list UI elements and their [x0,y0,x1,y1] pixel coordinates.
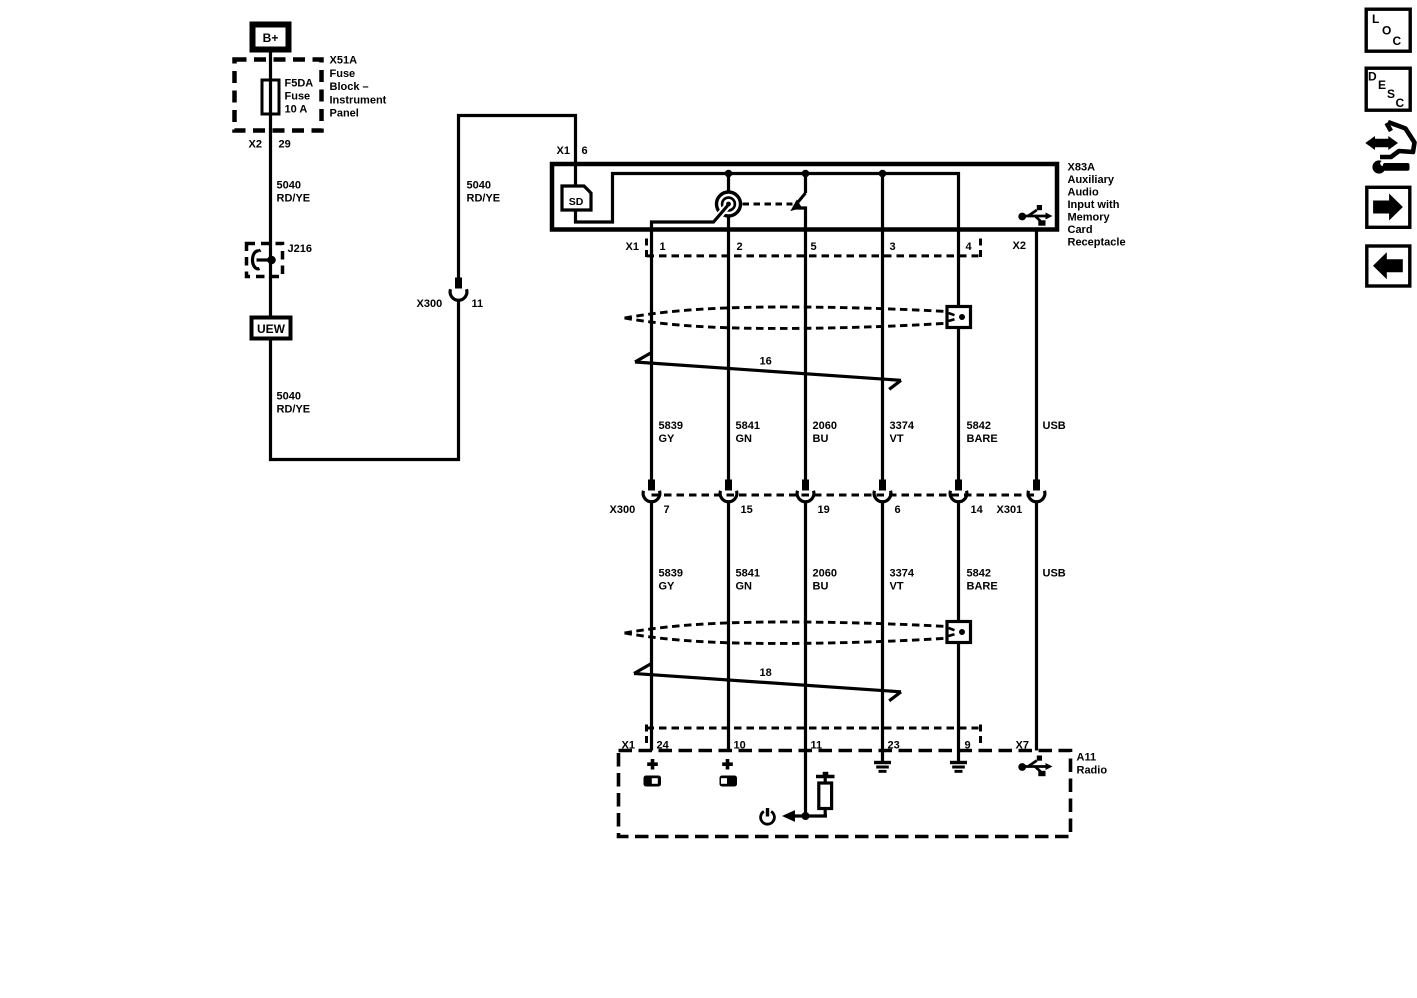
wire bus to pin 3 [881,174,884,232]
shield drain box upper on 5842 [947,307,971,328]
svg-text:6: 6 [895,504,901,516]
wire from X300 11 up to X1 6 of aux unit [459,116,576,278]
svg-text:C: C [1396,96,1405,110]
svg-text:19: 19 [818,504,830,516]
wire X2 from aux unit [1035,232,1038,480]
splice J216 symbol [252,250,275,269]
wire 3374 VT X300-6 to radio 23 [881,502,884,762]
svg-text:USB: USB [1043,568,1066,580]
hotspot icon DESC [1366,68,1410,110]
resistor in radio [795,772,835,816]
svg-text:29: 29 [279,139,291,151]
arrowhead to power symbol [782,810,795,822]
dashed link jack to switch [743,203,793,206]
wire 5842 BARE X300-14 to radio 9 [957,502,960,762]
in-line connector X300 pin 15 [720,480,737,502]
splice J216 dashed box [247,244,283,277]
in-line connector X300 pin 14 [950,480,967,502]
ground symbol radio pin 23 [874,761,891,773]
wire B+ to fuse to J216 to UEW down and right to X300 [271,53,459,460]
svg-text:SD: SD [569,196,584,208]
twisted-pair arrow 16 [635,352,901,389]
in-line connector X301 USB [1028,480,1045,502]
audio jack symbol outer ring [717,192,741,216]
in-line connector X300 pin 6 [874,480,891,502]
svg-text:7: 7 [664,504,670,516]
connector row X1 dashed line under aux unit [647,254,979,257]
svg-text:1: 1 [660,241,666,253]
svg-text:6: 6 [582,145,588,157]
in-line connector X300 pin 19 [797,480,814,502]
svg-text:4: 4 [966,241,973,253]
svg-text:14: 14 [971,504,984,516]
svg-text:X1: X1 [557,145,570,157]
svg-text:15: 15 [741,504,753,516]
svg-text:C: C [1393,34,1402,48]
connector row X300/X301 dashed line [652,494,1037,497]
hotspot icon forward arrow [1367,187,1410,227]
wire bus to jack sleeve [727,174,730,192]
wire 5841 GN X300-15 to radio 10 [727,502,730,751]
audio jack tip contact wire from pin 1 [652,202,731,232]
fuse block X51A dashed box [235,60,322,131]
node junction dot at pin 2 branch [725,170,733,178]
svg-text:X2: X2 [1013,240,1026,252]
UEW box [252,318,291,339]
svg-text:B+: B+ [263,31,279,45]
svg-text:L: L [1372,12,1379,26]
twisted-pair arrow 18 [634,664,901,701]
svg-text:5: 5 [811,241,817,253]
svg-text:X301: X301 [997,504,1023,516]
wire 5839 GY pin1 to X300-7 [650,232,653,480]
svg-text:X300: X300 [610,504,636,516]
junction dot wire 11 to power feed [802,812,810,820]
power symbol [761,808,775,824]
switch S1 in aux unit [790,174,805,232]
svg-text:J216: J216 [288,243,312,255]
radio connector row left tick [645,725,648,745]
wire 2060 BU X300-19 to radio 11 [804,502,807,819]
wire X1 6 into SD card [574,162,577,186]
svg-text:X2: X2 [249,139,262,151]
radio connector row X1 dashed line [647,727,979,730]
audio jack inner ring [722,198,735,211]
wire 3374 VT pin3 to X300-6 [881,232,884,480]
svg-text:D: D [1368,70,1377,84]
svg-text:USB: USB [1043,420,1066,432]
svg-text:3: 3 [890,241,896,253]
connector row X1 left tick [645,239,648,260]
hotspot icon back arrow [1367,246,1410,286]
node junction dot at pin 5 branch [802,170,810,178]
hotspot icon LOC [1366,9,1410,51]
svg-text:X1: X1 [626,241,639,253]
right audio channel plus sign [722,759,733,770]
internal bus wire from SD to pin 4 [576,174,959,232]
svg-text:16: 16 [760,356,772,368]
svg-text:11: 11 [472,298,484,310]
in-line connector X300 pin 11 [450,278,467,301]
svg-text:UEW: UEW [257,322,286,336]
wire 2060 BU pin5 to X300-19 [804,232,807,480]
wire 5842 BARE pin4 to X300-14 [957,232,960,480]
wire USB X301 to radio X7 [1035,502,1038,751]
svg-text:E: E [1378,78,1386,92]
hotspot icon harness routing [1365,122,1414,174]
left audio channel icon [644,776,662,787]
radio A11 dashed box [619,751,1071,837]
shield drain box lower on 5842 [947,622,971,643]
svg-text:18: 18 [760,667,772,679]
USB receptacle icon inside radio [1018,756,1052,777]
left audio channel plus sign [647,759,658,770]
B+ power symbol box [253,25,289,50]
ground symbol radio pin 9 [950,761,967,773]
svg-text:O: O [1382,24,1391,38]
shield ellipse lower run [625,622,947,643]
X83A Auxiliary Audio Input box [552,164,1057,230]
radio connector row right tick [979,725,982,745]
in-line connector X300 pin 7 [643,480,660,502]
SD card symbol [562,186,591,210]
connector row X1 right tick [979,239,982,260]
svg-text:2: 2 [737,241,743,253]
wire 5839 GY X300-7 to radio 24 [650,502,653,751]
shield ellipse upper run [625,307,947,328]
fuse F5DA [262,80,279,114]
wire 5841 GN pin2 to X300-15 [727,232,730,480]
right audio channel icon [720,776,738,787]
wire jack to pin 2 [727,216,730,232]
svg-text:X300: X300 [417,298,443,310]
node junction dot at pin 3 branch [879,170,887,178]
USB receptacle icon inside X83A [1018,205,1052,226]
svg-text:S: S [1387,87,1395,101]
